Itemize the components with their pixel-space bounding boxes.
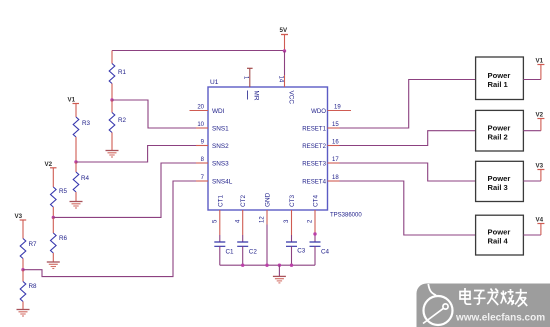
svg-text:C4: C4 <box>321 249 330 256</box>
resistor R2 <box>109 100 126 151</box>
wire R7/R8 node to SNS4L <box>23 181 196 277</box>
svg-text:10: 10 <box>197 122 204 128</box>
resistor R4 <box>73 162 89 202</box>
svg-text:R2: R2 <box>118 117 127 124</box>
svg-text:Rail 2: Rail 2 <box>488 133 508 142</box>
svg-text:15: 15 <box>332 122 339 128</box>
wire RESET1 to Power Rail 1 <box>340 80 476 129</box>
resistor R6 <box>51 217 68 262</box>
svg-text:19: 19 <box>334 105 341 111</box>
pin 4 CT2 stub <box>235 194 247 242</box>
svg-text:V2: V2 <box>536 112 544 119</box>
svg-text:18: 18 <box>332 175 339 181</box>
node junction R5/R6 <box>52 216 55 219</box>
pin 16 RESET2 stub <box>302 140 339 150</box>
pin 10 SNS1 stub <box>196 122 229 132</box>
node junction bus CT3 <box>290 264 293 267</box>
wire R1/R2 node to SNS1 <box>112 100 196 128</box>
svg-text:14: 14 <box>277 76 283 83</box>
resistor R3 <box>73 117 90 162</box>
block Power Rail 1 <box>476 57 524 100</box>
svg-text:7: 7 <box>201 175 205 181</box>
ground under R8 <box>17 310 30 317</box>
wire RESET4 to Power Rail 4 <box>340 181 476 235</box>
pin 18 RESET4 stub <box>302 175 339 185</box>
pin 5 CT1 stub <box>213 194 225 242</box>
svg-text:R7: R7 <box>29 241 38 248</box>
pin 2 CT4 stub <box>308 194 320 242</box>
block Power Rail 4 <box>476 215 524 255</box>
power symbol 5V <box>280 27 289 51</box>
svg-text:V3: V3 <box>536 163 544 170</box>
capacitor C1 <box>214 242 234 265</box>
ground under R2 <box>106 151 119 158</box>
wire ground bus under capacitors <box>220 264 315 266</box>
svg-text:Rail 1: Rail 1 <box>488 80 509 89</box>
voltage probe V4 output <box>536 217 545 236</box>
block Power Rail 2 <box>476 110 524 151</box>
ground below capacitor bus <box>273 265 286 283</box>
resistor R5 <box>51 187 68 217</box>
svg-text:R1: R1 <box>118 69 127 76</box>
svg-text:TPS386000: TPS386000 <box>330 213 362 219</box>
voltage probe V2 <box>45 161 57 187</box>
node junction on CT4 stub <box>313 232 316 235</box>
voltage probe V1 output <box>536 58 545 80</box>
wire PR3 output <box>523 180 541 182</box>
svg-text:C1: C1 <box>226 249 235 256</box>
resistor R1 <box>109 51 126 101</box>
svg-text:GND: GND <box>265 192 272 207</box>
wire RESET2 to Power Rail 2 <box>340 131 476 146</box>
svg-text:Power: Power <box>488 174 511 183</box>
svg-text:R6: R6 <box>59 235 68 242</box>
svg-text:5V: 5V <box>280 27 288 34</box>
svg-text:V3: V3 <box>15 213 23 220</box>
node junction bus ground tap <box>278 264 281 267</box>
pin 17 RESET3 stub <box>302 157 339 167</box>
svg-text:16: 16 <box>332 140 339 146</box>
wire PR2 output <box>523 130 541 132</box>
watermark logo <box>423 284 453 325</box>
voltage probe V3 output <box>536 163 545 182</box>
svg-text:R8: R8 <box>29 283 38 290</box>
svg-text:V1: V1 <box>68 97 76 104</box>
capacitor C4 <box>310 242 330 265</box>
capacitor C2 <box>237 242 257 265</box>
wire R3/R4 node to SNS2 <box>76 146 196 163</box>
wire PR1 output <box>523 79 541 81</box>
watermark badge elecfans <box>417 284 550 327</box>
svg-text:12: 12 <box>260 216 266 223</box>
node junction bus GND <box>265 264 268 267</box>
voltage probe V3 <box>15 213 27 239</box>
svg-text:SNS3: SNS3 <box>212 161 229 168</box>
svg-text:V4: V4 <box>536 217 544 224</box>
block Power Rail 3 <box>476 161 524 201</box>
svg-text:20: 20 <box>197 105 204 111</box>
svg-text:CT4: CT4 <box>313 194 320 207</box>
svg-text:C3: C3 <box>297 248 306 255</box>
wire top rail from R1 to 5V/VCC <box>112 50 285 52</box>
voltage probe V1 <box>68 97 80 118</box>
svg-text:V2: V2 <box>45 161 53 168</box>
svg-text:SNS1: SNS1 <box>212 126 229 133</box>
voltage probe V2 output <box>536 112 545 131</box>
svg-text:VCC: VCC <box>287 91 294 105</box>
resistor R7 <box>20 239 37 270</box>
svg-text:1: 1 <box>243 76 249 80</box>
svg-text:SNS4L: SNS4L <box>212 179 233 186</box>
svg-text:RESET1: RESET1 <box>302 126 326 133</box>
pin 9 SNS2 stub <box>196 140 229 150</box>
svg-text:WDI: WDI <box>212 108 225 115</box>
svg-text:4: 4 <box>235 219 241 223</box>
svg-text:RESET4: RESET4 <box>302 179 326 186</box>
svg-text:CT3: CT3 <box>289 194 296 207</box>
node junction 5V/VCC <box>283 49 286 52</box>
pin 1 MR top stub with tie bar <box>243 68 260 101</box>
svg-text:2: 2 <box>308 219 314 223</box>
node junction R7/R8 <box>21 268 24 271</box>
capacitor C3 <box>286 242 306 265</box>
node junction R3/R4 <box>74 160 77 163</box>
pin 19 WDO stub (unconnected) <box>328 105 352 111</box>
pin 15 RESET1 stub <box>302 122 339 132</box>
svg-text:C2: C2 <box>249 249 258 256</box>
svg-text:5: 5 <box>213 219 219 223</box>
svg-text:WDO: WDO <box>311 108 326 115</box>
pin 8 SNS3 stub <box>196 157 229 167</box>
pin 3 CT3 stub <box>284 194 296 242</box>
svg-text:MR: MR <box>253 91 260 101</box>
svg-text:RESET3: RESET3 <box>302 161 326 168</box>
svg-text:R4: R4 <box>81 175 90 182</box>
IC U1 TPS386000 <box>208 87 328 210</box>
svg-text:www.elecfans.com: www.elecfans.com <box>455 313 545 324</box>
svg-text:CT2: CT2 <box>240 194 247 207</box>
pin 12 GND stub <box>260 192 272 265</box>
svg-text:CT1: CT1 <box>217 194 224 207</box>
svg-text:9: 9 <box>201 140 205 146</box>
svg-text:V1: V1 <box>536 58 544 65</box>
svg-text:Rail 3: Rail 3 <box>488 183 508 192</box>
wire VCC down to pin 14 <box>284 51 286 75</box>
node junction bus C2 <box>241 264 244 267</box>
svg-text:3: 3 <box>284 219 290 223</box>
svg-text:R3: R3 <box>82 120 91 127</box>
svg-text:U1: U1 <box>210 79 219 86</box>
svg-text:RESET2: RESET2 <box>302 143 326 150</box>
wire RESET3 to Power Rail 3 <box>340 163 476 181</box>
pin 20 WDI stub <box>190 105 225 115</box>
ground under R4 <box>70 202 83 209</box>
svg-text:Power: Power <box>488 228 511 237</box>
svg-text:R5: R5 <box>59 188 68 195</box>
svg-text:SNS2: SNS2 <box>212 143 229 150</box>
wire R5/R6 node to SNS3 <box>53 163 196 217</box>
pin 14 VCC top stub <box>277 75 294 104</box>
pin 7 SNS4L stub <box>196 175 233 185</box>
svg-text:Power: Power <box>488 71 511 80</box>
svg-text:Power: Power <box>488 124 511 133</box>
watermark CJK title 电子发烧友 (drawn glyph approximations) <box>460 288 527 307</box>
node junction R1/R2 <box>110 98 113 101</box>
svg-text:17: 17 <box>332 157 339 163</box>
ground under R6 <box>47 262 60 269</box>
svg-text:Rail 4: Rail 4 <box>488 237 509 246</box>
svg-text:8: 8 <box>201 157 205 163</box>
resistor R8 <box>20 270 37 310</box>
wire PR4 output <box>523 234 541 236</box>
